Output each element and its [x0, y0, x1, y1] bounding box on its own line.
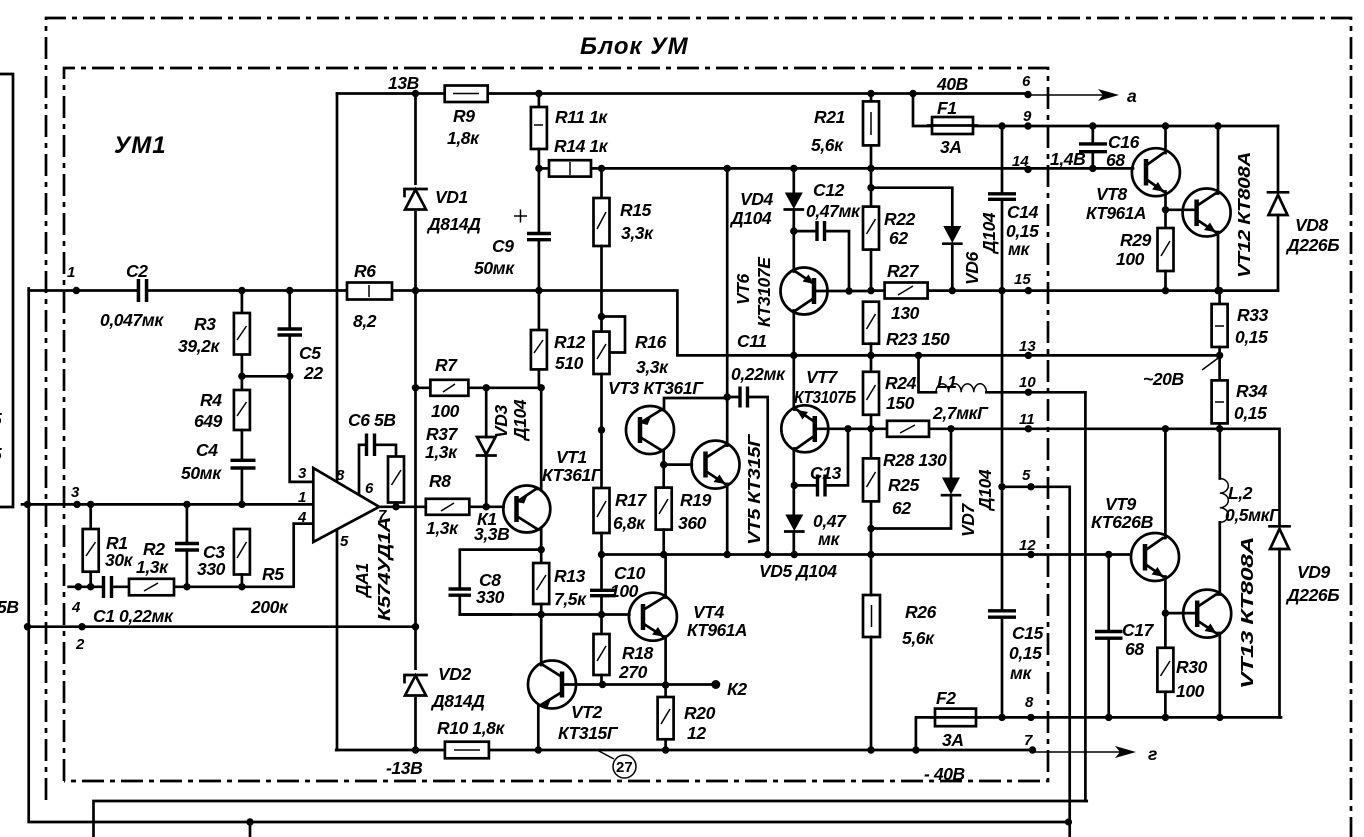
junction x727 top [724, 165, 731, 172]
junction VT12 collector rail [1214, 122, 1221, 129]
svg-text:К2: К2 [727, 679, 747, 699]
resistor R8 [426, 499, 470, 515]
junction C14 top [998, 122, 1005, 129]
svg-text:C2: C2 [126, 261, 148, 281]
junction VT9-VT13 node [1162, 609, 1169, 616]
svg-text:130: 130 [891, 303, 920, 323]
svg-text:R21: R21 [814, 107, 845, 127]
op-amp DA1 К574УД1А [313, 468, 379, 542]
junction C4 bottom [238, 501, 245, 508]
svg-text:13В: 13В [388, 73, 419, 93]
svg-text:3: 3 [298, 465, 307, 482]
node 8 dot [1027, 714, 1034, 721]
transistor VT6 circle [781, 268, 828, 315]
junction x727 bottom rail [724, 551, 731, 558]
svg-text:6: 6 [365, 480, 374, 497]
svg-text:0,047мк: 0,047мк [100, 310, 164, 330]
resistor R10 [445, 742, 489, 759]
junction VD2 bottom [412, 746, 419, 753]
VT6 base bar [812, 278, 817, 304]
node 12 dot [1027, 551, 1034, 558]
junction VT3-VT5 node [660, 461, 667, 468]
svg-text:10: 10 [1019, 374, 1036, 391]
svg-text:R6: R6 [354, 261, 376, 281]
svg-text:12: 12 [1019, 537, 1036, 554]
resistor R29 [1164, 210, 1167, 228]
svg-text:12: 12 [687, 723, 706, 743]
svg-text:0,15: 0,15 [1234, 403, 1267, 423]
svg-text:3,3В: 3,3В [474, 524, 509, 544]
VT7 emitter arrow [797, 410, 809, 420]
svg-text:R10 1,8к: R10 1,8к [437, 718, 505, 738]
junction C16 bottom [1089, 165, 1096, 172]
svg-text:R19: R19 [680, 490, 712, 510]
svg-text:7,5к: 7,5к [554, 589, 587, 609]
junction R14 right [598, 165, 605, 172]
R16 tap bracket [602, 317, 626, 353]
svg-text:VT4: VT4 [693, 602, 725, 622]
zener VD2 [403, 670, 428, 697]
inner UM1 border (dash-dot) [64, 68, 1048, 781]
resistor R16 [594, 332, 610, 374]
junction C15 top [998, 483, 1005, 490]
node 7 dot [1029, 746, 1036, 753]
svg-text:8: 8 [336, 467, 345, 484]
wire C5 node to pin3 [290, 376, 314, 482]
VT2 emitter arrow [540, 698, 552, 708]
svg-text:5,6к: 5,6к [811, 135, 844, 155]
svg-text:VT3 КТ361Г: VT3 КТ361Г [608, 378, 704, 398]
svg-text:C4: C4 [196, 440, 218, 460]
svg-text:3А: 3А [940, 137, 962, 157]
svg-text:3А: 3А [942, 730, 964, 750]
svg-text:62: 62 [892, 498, 911, 518]
junction C9 bottom [535, 287, 542, 294]
junction R30 bottom [1162, 714, 1169, 721]
svg-text:R37: R37 [426, 424, 459, 444]
zener VD1 vertical wire [414, 94, 417, 751]
resistor R5 [234, 529, 250, 575]
svg-text:30к: 30к [105, 550, 134, 570]
junction x27 wire2 [24, 623, 31, 630]
VT8 collector arm (up) [1146, 126, 1166, 166]
svg-text:-13В: -13В [386, 758, 422, 778]
VT13 emitter arm (down) with arrow [1197, 621, 1220, 718]
capacitor C1 [104, 576, 112, 598]
junction R1 top [87, 501, 94, 508]
junction VT9 collector rail [1162, 425, 1169, 432]
transistor VT7 circle [781, 405, 828, 452]
node 13 dot [1025, 352, 1032, 359]
wire 4 (y587) [69, 524, 314, 587]
svg-text:2,7мкГ: 2,7мкГ [932, 403, 989, 423]
junction R25 rail [867, 551, 874, 558]
svg-text:R11 1к: R11 1к [555, 107, 608, 127]
svg-text:R15: R15 [620, 200, 652, 220]
wire: -13V / -40V bottom rail [336, 749, 1032, 752]
inductor L1 [936, 384, 986, 393]
svg-text:150: 150 [886, 393, 915, 413]
junction R37 out [392, 503, 399, 510]
svg-text:Д226Б: Д226Б [1285, 585, 1339, 605]
svg-text:40В: 40В [936, 74, 968, 94]
svg-text:VD3: VD3 [491, 404, 511, 438]
VT6 emitter arrow [803, 275, 815, 285]
capacitor C10 [600, 555, 603, 615]
resistor R30 [1164, 613, 1167, 648]
svg-text:КТ3107Б: КТ3107Б [794, 387, 856, 407]
junction VD4 top [790, 165, 797, 172]
svg-text:VТ12 КТ808А: VТ12 КТ808А [1234, 152, 1254, 278]
capacitor C9 polarized [538, 168, 541, 290]
svg-text:6,8к: 6,8к [613, 513, 646, 533]
junction R21 bottom [867, 165, 874, 172]
svg-text:Д814Д: Д814Д [430, 691, 485, 711]
VT8 emitter arrow [1152, 182, 1164, 192]
wire L1 to node10 [986, 391, 1085, 394]
svg-text:R13: R13 [554, 566, 586, 586]
wire: left long vertical [336, 94, 339, 751]
stub at x250 down [249, 822, 252, 837]
resistor R13 [540, 550, 543, 563]
capacitor C12 [794, 231, 849, 291]
VT5 emitter arm (down) with arrow [706, 471, 728, 486]
junction C14 bottom [998, 287, 1005, 294]
junction R21 top [867, 90, 874, 97]
svg-text:50мк: 50мк [474, 258, 515, 278]
junction C5 bottom [286, 373, 293, 380]
VT4 collector arm (up) [643, 555, 666, 611]
svg-text:- 40В: - 40В [924, 764, 965, 784]
wire: 40V rail after F1 [973, 125, 1278, 128]
diode VD8 [1277, 126, 1280, 291]
VT3 emitter arm (up) with arrow to y398 line [640, 398, 727, 423]
svg-text:Д104: Д104 [979, 212, 999, 255]
node 9 dot [1024, 122, 1031, 129]
svg-text:0,15: 0,15 [1006, 221, 1039, 241]
resistor R19 [656, 488, 672, 530]
VT13 base bar [1195, 601, 1200, 628]
node 11 dot [1025, 425, 1032, 432]
svg-text:68: 68 [1125, 639, 1144, 659]
svg-text:a: a [1127, 86, 1137, 106]
VT12 emitter arm (down) with arrow [1197, 220, 1218, 291]
junction VT8-VT12 node [1162, 206, 1169, 213]
svg-text:3,3к: 3,3к [621, 223, 654, 243]
wire VT5 base [664, 463, 692, 466]
svg-text:200к: 200к [250, 597, 289, 617]
capacitor C17 [1107, 555, 1110, 718]
wire: rail y169 (node 14 line) [591, 167, 1133, 170]
svg-text:С6 5В: С6 5В [348, 410, 396, 430]
diode VD7 [950, 429, 953, 478]
svg-text:C16: C16 [1108, 132, 1140, 152]
junction VD5 bottom rail [791, 551, 798, 558]
svg-text:VT1: VT1 [556, 447, 587, 467]
VT2 base bar [560, 672, 565, 698]
svg-text:R24: R24 [885, 373, 917, 393]
transistor VT5 circle [692, 441, 740, 489]
transistor VT8 circle [1132, 148, 1180, 196]
svg-text:C12: C12 [813, 180, 845, 200]
wire: F2 rail y717 [916, 717, 1281, 750]
junction F1 top [909, 90, 916, 97]
svg-text:VD2: VD2 [438, 664, 472, 684]
junction R5 bottom [238, 583, 245, 590]
VT3 base bar [638, 417, 643, 443]
diode VD3 [485, 388, 488, 437]
transistor VT13 circle [1183, 590, 1231, 638]
resistor R15 [600, 168, 603, 198]
junction VT4 emitter [662, 681, 669, 688]
svg-text:0,47мк: 0,47мк [806, 201, 861, 221]
svg-text:R8: R8 [429, 471, 451, 491]
fuse F2 [935, 709, 976, 727]
svg-text:62: 62 [889, 228, 908, 248]
svg-text:VD1: VD1 [435, 187, 468, 207]
transistor VT3 circle [626, 406, 674, 454]
node 10 dot [1025, 389, 1032, 396]
wire: F1 feed [913, 94, 932, 127]
junction x27 wire3 [24, 501, 31, 508]
svg-text:1,3к: 1,3к [136, 557, 169, 577]
diode VD6 [943, 226, 961, 243]
svg-text:R22: R22 [884, 209, 916, 229]
svg-text:Д226Б: Д226Б [1285, 235, 1339, 255]
junction C3 bottom [183, 583, 190, 590]
capacitor C13 [794, 429, 848, 486]
junction x415 R7 line [412, 384, 419, 391]
svg-text:~20В: ~20В [1143, 369, 1184, 389]
junction R16 tap [598, 313, 605, 320]
junction R13 bottom [538, 611, 545, 618]
svg-text:УМ1: УМ1 [114, 132, 167, 159]
resistor R2 [129, 579, 174, 596]
junction C12 tap [790, 227, 797, 234]
wire: +13V top rail [337, 92, 1028, 95]
svg-text:VT2: VT2 [571, 702, 603, 722]
svg-text:0,15: 0,15 [1235, 327, 1268, 347]
svg-text:C9: C9 [492, 236, 514, 256]
junction R25-VD7 [867, 525, 874, 532]
capacitor C5 [288, 291, 291, 377]
junction VT7 base node [867, 425, 874, 432]
VT6 collector arm (down) [794, 298, 814, 311]
VT5 collector arm (up) [706, 443, 728, 458]
junction VD1 top [412, 90, 419, 97]
wire R27 line [871, 289, 1278, 292]
junction L1 top [915, 352, 922, 359]
svg-text:510: 510 [555, 353, 584, 373]
VT9 emitter arrow [1152, 567, 1164, 577]
junction VD3 top [483, 384, 490, 391]
svg-text:4: 4 [297, 509, 307, 526]
resistor R17 [600, 430, 603, 488]
resistor R33 [1218, 291, 1221, 304]
resistor R12 [538, 291, 541, 388]
svg-text:R26: R26 [905, 602, 937, 622]
VT9 emitter arm (down) with arrow [1145, 564, 1165, 613]
VT7 emitter arm (up) with arrow [794, 410, 815, 423]
svg-text:VТ13 КТ808А: VТ13 КТ808А [1237, 537, 1257, 689]
VT1 base bar [514, 496, 519, 522]
svg-text:1,3к: 1,3к [426, 518, 459, 538]
wire: VD5/node12 rail [603, 553, 1131, 556]
svg-text:R2: R2 [143, 539, 165, 559]
junction R17 bottom rail [598, 551, 605, 558]
svg-text:3,3к: 3,3к [636, 357, 669, 377]
node 4 terminal dot [75, 583, 82, 590]
circled 27 leader [597, 750, 614, 759]
wire K2 line [603, 683, 716, 686]
capacitor C8 loop [460, 550, 541, 615]
capacitor C14 [988, 194, 1016, 200]
resistor R25 [870, 429, 873, 459]
junction VT2 base node [599, 681, 606, 688]
junction C12 to base [845, 287, 852, 294]
svg-text:C17: C17 [1122, 620, 1155, 640]
resistor R18 [600, 615, 603, 635]
VT5 base bar [703, 452, 708, 478]
svg-text:5,6к: 5,6к [902, 628, 935, 648]
svg-text:Д104: Д104 [729, 208, 772, 228]
resistor R23 [863, 302, 879, 344]
wire VD4/VT6/VT7/VD5 vertical [792, 168, 795, 554]
junction C13 to base [844, 425, 851, 432]
link to C5 [242, 375, 290, 378]
svg-text:КТ315Г: КТ315Г [558, 723, 619, 743]
node 1 terminal dot [73, 287, 80, 294]
svg-text:R17: R17 [615, 490, 648, 510]
resistor R21 [870, 94, 873, 102]
svg-text:R12: R12 [554, 332, 586, 352]
svg-text:360: 360 [678, 513, 707, 533]
VT1 collector arm (down) [517, 516, 542, 550]
node 5 dot [1027, 483, 1034, 490]
junction R22-R27 [867, 287, 874, 294]
svg-text:R25: R25 [888, 475, 920, 495]
svg-text:VТ6: VТ6 [733, 273, 753, 305]
svg-text:R23 150: R23 150 [886, 329, 950, 349]
VT13 base wire [1165, 612, 1197, 615]
svg-text:0,47: 0,47 [813, 511, 847, 531]
svg-text:C13: C13 [810, 463, 842, 483]
svg-text:VT5 КТ315Г: VT5 КТ315Г [744, 433, 764, 545]
svg-text:Д814Д: Д814Д [426, 214, 481, 234]
VT4 emitter arm (down) with arrow [643, 624, 666, 686]
wire op-amp output [379, 505, 503, 508]
svg-text:R7: R7 [435, 355, 458, 375]
wire VD6 branch [870, 168, 873, 187]
capacitor C4 [231, 460, 256, 468]
svg-text:R20: R20 [684, 703, 716, 723]
VT7 base wire [815, 427, 872, 430]
capacitor C16 [1091, 126, 1094, 168]
capacitor C3 [186, 504, 189, 586]
svg-text:R5: R5 [262, 564, 284, 584]
wire C8/R13 line to VT4 base [460, 613, 630, 616]
VT8 base bar [1144, 159, 1149, 186]
diode VD5 [785, 515, 803, 532]
svg-text:C5: C5 [299, 343, 321, 363]
junction C16 top [1089, 122, 1096, 129]
junction VT3 base [598, 426, 605, 433]
transistor VT2 circle [528, 661, 576, 709]
VT13 collector arm (up) [1197, 522, 1220, 607]
VT9 base bar [1143, 544, 1148, 571]
svg-text:L1: L1 [937, 372, 957, 392]
svg-text:г: г [1148, 744, 1157, 764]
svg-text:270: 270 [618, 662, 648, 682]
svg-text:Д104: Д104 [510, 399, 530, 442]
junction C13 tap [791, 482, 798, 489]
arrowhead a [1098, 89, 1119, 101]
svg-text:1,3к: 1,3к [425, 442, 458, 462]
svg-text:R27: R27 [887, 261, 920, 281]
junction R3 top [238, 287, 245, 294]
svg-text:330: 330 [197, 559, 226, 579]
arrowhead г [1115, 746, 1136, 758]
junction VT12 emitter rail [1214, 287, 1221, 294]
capacitor C15 [988, 611, 1016, 617]
VT12 emitter arrow [1204, 223, 1216, 233]
svg-text:VT7: VT7 [806, 367, 839, 387]
resistor R20 [664, 685, 667, 697]
resistor R6 [347, 283, 392, 300]
diode VD4 [785, 193, 803, 210]
VT13 emitter arrow [1205, 624, 1217, 634]
junction R28 right [947, 425, 954, 432]
svg-text:5: 5 [1022, 467, 1031, 484]
VT2 emitter arm (down) with arrow [538, 692, 562, 750]
junction R11-R14 [535, 165, 542, 172]
junction VT13 emitter rail [1216, 714, 1223, 721]
wire VT9 base from node12 [1105, 551, 1112, 558]
svg-text:КТ3107Е: КТ3107Е [754, 256, 774, 327]
junction R1 bottom [87, 583, 94, 590]
svg-text:R34: R34 [1236, 381, 1268, 401]
svg-text:КТ361Г: КТ361Г [542, 465, 603, 485]
svg-text:R4: R4 [200, 390, 222, 410]
wire: bottom return y822 [29, 289, 1069, 823]
junction x727 C11 node [724, 393, 731, 400]
resistor R14 [539, 167, 549, 170]
junction R3-R4 node [238, 373, 245, 380]
resistor R34 [1218, 355, 1221, 380]
junction C5 top [286, 287, 293, 294]
wire: bottom return y801 [94, 801, 1087, 837]
junction C11 right bottom [764, 551, 771, 558]
resistor R26 [863, 595, 880, 637]
junction C8 node [538, 546, 545, 553]
capacitor C11 [727, 397, 768, 555]
svg-text:VТ9: VТ9 [1105, 494, 1137, 514]
VT3 collector arm (down) [640, 437, 664, 465]
wire 2 (y627) [28, 625, 418, 628]
svg-text:1: 1 [67, 264, 75, 281]
svg-text:С11: С11 [737, 331, 767, 351]
svg-text:мк: мк [818, 529, 841, 549]
transistor VT12 circle [1183, 189, 1231, 237]
svg-text:8,2: 8,2 [353, 311, 377, 331]
svg-text:C14: C14 [1007, 202, 1039, 222]
junction VD3 bottom [483, 503, 490, 510]
junction F2 tap [912, 746, 919, 753]
wire VT5 collector/emitter vertical [726, 168, 729, 554]
junction R26 bottom [867, 746, 874, 753]
svg-text:1: 1 [298, 489, 306, 506]
resistor R37 [388, 457, 404, 503]
